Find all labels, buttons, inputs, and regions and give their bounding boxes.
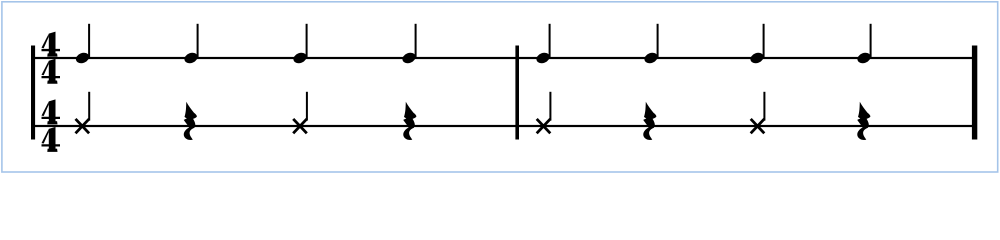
x-note 4 <box>751 92 766 134</box>
light blue page border <box>2 2 998 172</box>
quarter rest 2 <box>403 102 416 140</box>
middle barline <box>515 46 519 140</box>
quarter rest 1 <box>184 102 197 140</box>
denominator 4 <box>42 59 61 84</box>
quarter rest 3 <box>643 102 656 140</box>
top staff, measure 1: quarter note 1 <box>74 24 90 65</box>
quarter note 8 <box>856 24 872 65</box>
final barline <box>972 46 977 140</box>
system start barline <box>31 46 35 140</box>
top staff, measure 2: quarter note 5 <box>535 24 551 65</box>
quarter note 6 <box>643 24 659 65</box>
quarter rest 4 <box>857 102 870 140</box>
staff line (top percussion staff) <box>31 57 977 59</box>
bottom staff, measure 1: x-note 1 <box>76 92 91 134</box>
bottom staff, measure 2: x-note 3 <box>537 92 552 134</box>
quarter note 4 <box>401 24 417 65</box>
staff line (bottom percussion staff) <box>31 125 977 127</box>
quarter note 3 <box>292 24 308 65</box>
time signature 4/4 (bottom staff): numerator 4 <box>42 99 61 124</box>
time signature 4/4 (top staff): numerator 4 <box>42 32 61 57</box>
quarter note 7 <box>749 24 765 65</box>
denominator 4 <box>42 127 61 152</box>
quarter note 2 <box>183 24 199 65</box>
x-note 2 <box>293 92 308 134</box>
page background <box>0 0 1000 175</box>
